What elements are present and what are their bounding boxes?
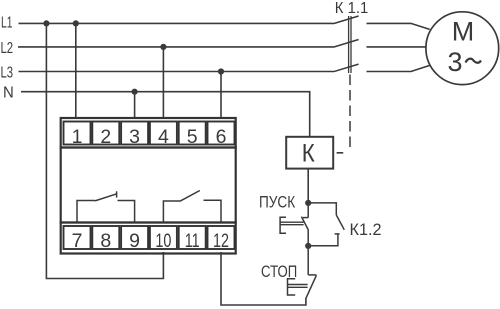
stop button top lead (307, 246, 309, 275)
wire stop button to terminal 12 (221, 252, 306, 305)
svg-text:4: 4 (158, 126, 169, 148)
stop button blade (306, 275, 317, 299)
relay contact 7-9 tick (116, 191, 118, 197)
svg-text:8: 8 (100, 230, 111, 252)
dashed linkage to coil K (349, 75, 351, 150)
svg-text:К1.2: К1.2 (350, 221, 382, 239)
contact K1.1 pole L2 blade (334, 40, 359, 48)
relay contact 7-9 blade (95, 194, 117, 201)
relay contact 7-9 right lead (118, 201, 135, 223)
contact K1.2 top wire (308, 203, 336, 215)
terminal 5 (179, 122, 206, 145)
svg-text:N: N (3, 84, 14, 101)
svg-text:L3: L3 (1, 64, 14, 81)
wire K1.1 to motor phase 3 (367, 65, 430, 71)
start button plunger rod (280, 221, 304, 223)
node N terminal-3 junction (132, 89, 138, 95)
contact K1.2 seat tick (335, 233, 340, 235)
wire L1 rail to terminal 10 (46, 23, 163, 278)
wire K1.1 to motor phase 1 (367, 23, 430, 29)
start button blade (301, 217, 308, 230)
node start-button top junction (305, 200, 311, 206)
contact K1.2 blade (336, 215, 344, 230)
contact K1.1 linkage bar (348, 16, 350, 73)
svg-text:L1: L1 (1, 15, 13, 32)
relay module body outline (61, 118, 236, 148)
contact K1.2 bottom wire (308, 234, 338, 246)
svg-text:1: 1 (72, 126, 83, 148)
stop button bracket (288, 279, 296, 295)
svg-text:5: 5 (187, 126, 198, 148)
relay contact 10-12 right lead (204, 200, 222, 222)
node L2 terminal-4 junction (160, 44, 166, 50)
terminal 6 (208, 122, 235, 145)
contact K1.1 pole L1 blade (334, 16, 359, 24)
relay contact 10-12 left lead (163, 201, 180, 223)
svg-text:12: 12 (213, 230, 229, 252)
node L1 rail junction (43, 20, 49, 26)
wire N bus to contactor coil (21, 92, 310, 137)
svg-text:10: 10 (155, 230, 171, 252)
contact K1.1 pole L3 blade (334, 64, 359, 72)
motor M circle (426, 12, 499, 85)
terminal 3 (121, 122, 148, 145)
wire L3 drop to terminal 6 (220, 72, 222, 120)
wire L1 bus (19, 22, 334, 24)
start button bracket (280, 217, 286, 233)
svg-text:ПУСК: ПУСК (259, 193, 296, 211)
terminal 8 (92, 226, 119, 249)
terminal 11 (179, 226, 206, 249)
svg-text:9: 9 (129, 230, 140, 252)
wire L2 bus (18, 46, 334, 48)
terminal 1 (64, 122, 91, 145)
terminal 9 (121, 226, 148, 249)
dashed tie to coil box (337, 152, 344, 154)
svg-text:11: 11 (185, 230, 200, 252)
svg-text:3: 3 (447, 47, 462, 77)
svg-text:3: 3 (129, 126, 140, 148)
svg-text:M: M (452, 16, 475, 46)
wire L3 bus (19, 71, 334, 73)
terminal 2 (92, 122, 119, 145)
terminal 4 (150, 122, 177, 145)
stop button seat tick (308, 274, 316, 276)
svg-text:L2: L2 (1, 40, 14, 57)
svg-text:2: 2 (100, 126, 111, 148)
relay contact 7-9 left lead (77, 201, 95, 223)
contactor coil K box (286, 137, 333, 169)
start button seat tick (303, 217, 308, 219)
terminal 12 (208, 226, 235, 249)
relay contact 10-12 blade (180, 191, 200, 202)
node stop-button top junction (305, 243, 311, 249)
start button bottom lead (307, 230, 309, 246)
svg-text:К: К (302, 140, 315, 168)
svg-text:7: 7 (72, 230, 83, 252)
svg-text:6: 6 (216, 126, 227, 148)
node L3 terminal-6 junction (218, 68, 224, 74)
wire K1.1 to motor phase 2 (367, 46, 427, 48)
node L1 terminal-1 junction (73, 20, 79, 26)
wire L1 drop to terminal 1 (75, 23, 77, 119)
wire L2 drop to terminal 4 (162, 47, 164, 119)
svg-text:К 1.1: К 1.1 (335, 0, 368, 17)
wire coil K to start button (307, 169, 309, 203)
start button top lead (307, 203, 309, 218)
terminal 10 (150, 226, 177, 249)
wire N drop to terminal 3 (134, 92, 136, 119)
stop button plunger rod (288, 284, 308, 286)
terminal 7 (64, 226, 91, 249)
